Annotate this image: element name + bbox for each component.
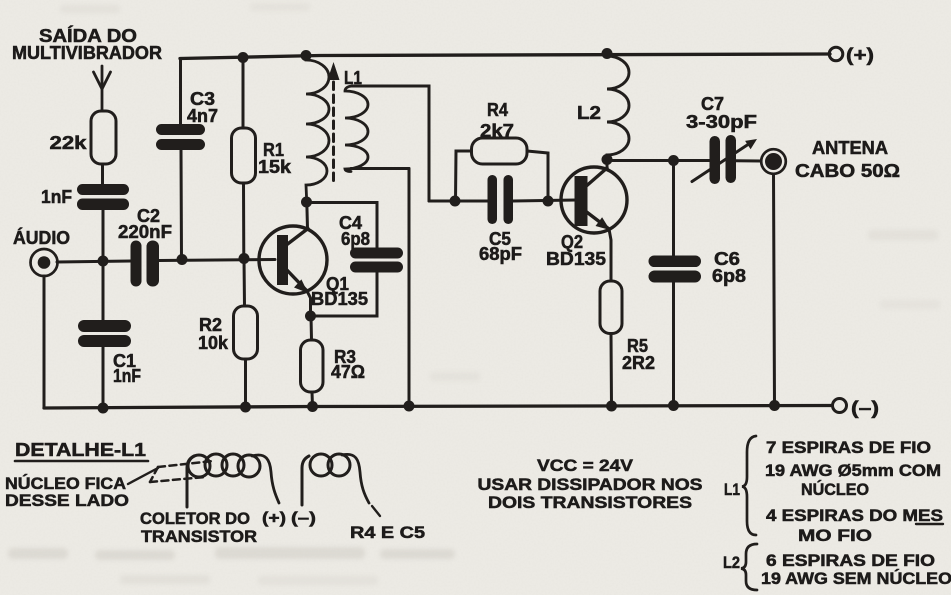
terminal (-) (833, 398, 880, 418)
wire bottom rail (44, 406, 832, 409)
capacitor C7 3-30pF trimmer (686, 94, 757, 184)
resistor 22k (50, 111, 117, 164)
detail coil L1 primary: collector lead (187, 456, 194, 507)
svg-text:COLETOR DO: COLETOR DO (140, 509, 250, 528)
wire L1 secondary right column to R4/C5 node (429, 200, 488, 203)
wire C4 top (307, 203, 378, 249)
wire C6 column upper (672, 161, 675, 257)
wire C7 to antenna jack (736, 159, 761, 162)
svg-text:1nF: 1nF (113, 366, 141, 386)
transistor Q2 BD135 (546, 167, 627, 269)
svg-text:BD135: BD135 (546, 249, 606, 269)
wire R2 to bottom rail (244, 359, 247, 407)
svg-text:19 AWG SEM NÚCLEO: 19 AWG SEM NÚCLEO (761, 569, 951, 588)
svg-text:2k7: 2k7 (480, 121, 514, 141)
capacitor C3 4n7 (156, 89, 218, 150)
wire secondary bottom to bottom rail (408, 169, 411, 407)
wire L2 node to antenna (607, 159, 710, 162)
inductor L1 secondary winding (345, 86, 368, 172)
label L1 note (724, 480, 740, 499)
detail coil L1 secondary right tail (342, 454, 369, 503)
wire audio jack to C2 (57, 261, 131, 262)
svg-text:DESSE LADO: DESSE LADO (5, 491, 129, 510)
resistor R5 2R2 (600, 281, 655, 373)
node L1 top rail (301, 50, 312, 61)
label ANTENA CABO 50ohm (795, 138, 900, 181)
svg-text:R2: R2 (199, 315, 222, 335)
detail coil L1 secondary loops (310, 454, 350, 476)
svg-text:TRANSISTOR: TRANSISTOR (141, 527, 257, 546)
svg-text:7 ESPIRAS DE FIO: 7 ESPIRAS DE FIO (766, 439, 931, 457)
wire C4 bottom (311, 273, 378, 317)
label COLETOR DO TRANSISTOR (140, 509, 257, 546)
L1 winding note text (765, 439, 943, 545)
svg-text:BD135: BD135 (311, 289, 368, 309)
label L2 note (723, 553, 740, 572)
connector ANTENA jack (761, 149, 786, 174)
underline DETALHE-L1 (15, 460, 148, 463)
node C6 bottom rail (668, 400, 679, 411)
wire emitter node to R3 (310, 316, 314, 340)
wire Q2 collector node (606, 159, 609, 168)
wire C3 column upper (179, 59, 182, 126)
wire C6 to bottom rail (672, 283, 675, 406)
wire antenna to bottom rail (774, 174, 775, 406)
capacitor C2 220nF (118, 206, 172, 287)
label VCC note (478, 456, 703, 512)
node Q1 emitter junction (305, 311, 316, 322)
capacitor C6 6p8 (649, 249, 747, 286)
wire C3 to audio line (180, 150, 184, 260)
node L1 bottom / Q1 collector (301, 197, 312, 208)
wire 1nF to audio line (102, 210, 105, 261)
resistor R2 10k (198, 306, 258, 359)
node L2 bottom / Q2 collector (602, 154, 613, 165)
resistor R3 47ohm (301, 340, 366, 392)
node C1/bottom rail (98, 403, 109, 414)
svg-text:ÁUDIO: ÁUDIO (13, 227, 70, 248)
detail coil L1 primary loops (188, 454, 260, 477)
svg-text:2R2: 2R2 (622, 353, 655, 373)
node R1/R2 column on audio line (239, 253, 250, 264)
wire R5 to bottom rail (610, 334, 614, 407)
node L2 top rail (602, 48, 613, 59)
wire 22k to 1nF (101, 164, 104, 185)
wire C2 to Q1 base (159, 260, 275, 261)
wire rail to R1 (242, 58, 245, 129)
svg-text:NÚCLEO: NÚCLEO (801, 480, 869, 499)
wire Q2 emitter to R5 (609, 229, 611, 281)
pointer tick R4 E C5 (372, 506, 380, 516)
node secondary bottom rail (404, 401, 415, 412)
capacitor C4 6p8 (339, 213, 403, 273)
node R5 bottom rail (606, 401, 617, 412)
svg-text:DETALHE-L1: DETALHE-L1 (15, 440, 146, 460)
svg-text:CABO 50Ω: CABO 50Ω (795, 161, 900, 181)
svg-text:MO FIO: MO FIO (798, 527, 872, 545)
svg-text:USAR DISSIPADOR NOS: USAR DISSIPADOR NOS (478, 475, 703, 494)
svg-text:6 ESPIRAS DE FIO: 6 ESPIRAS DE FIO (766, 552, 935, 570)
svg-text:L1: L1 (724, 480, 740, 499)
svg-text:47Ω: 47Ω (331, 362, 365, 382)
svg-text:6p8: 6p8 (712, 266, 746, 286)
wire L1 secondary top to right column (352, 86, 429, 201)
svg-text:R4: R4 (487, 100, 508, 120)
input arrow from multivibrator (94, 66, 111, 111)
wire audio line to R2 (243, 259, 247, 307)
detail coil labels (+) (-) (262, 510, 316, 527)
brace L1 (742, 436, 756, 535)
inductor L1 primary winding (306, 56, 329, 201)
svg-text:DOIS TRANSISTORES: DOIS TRANSISTORES (488, 493, 692, 512)
svg-text:15k: 15k (258, 157, 292, 177)
label DETALHE-L1 (15, 440, 146, 460)
svg-text:(+): (+) (846, 45, 874, 65)
wire audio jack down to bottom rail (43, 276, 46, 408)
L1 core dashed line with arrow (328, 62, 340, 183)
svg-text:L2: L2 (723, 553, 740, 572)
label NUCLEO FICA DESSE LADO (5, 474, 129, 510)
transistor Q1 BD135 (259, 226, 368, 309)
resistor R1 15k (232, 128, 293, 183)
svg-text:VCC = 24V: VCC = 24V (537, 456, 634, 475)
svg-text:10k: 10k (198, 333, 229, 353)
svg-text:22k: 22k (50, 133, 88, 153)
wire Q1 collector to node (305, 202, 309, 229)
L2 winding note text (761, 552, 951, 588)
wire Q1 emitter down (307, 291, 311, 316)
wire audio line to C1 (102, 261, 105, 320)
wire top rail (180, 54, 830, 59)
capacitor C1 1nF (78, 320, 141, 386)
node R2 bottom rail (240, 402, 251, 413)
svg-text:6p8: 6p8 (341, 229, 370, 249)
resistor R4 2k7 (456, 100, 549, 201)
pointer line nucleo (128, 468, 158, 484)
svg-text:(–): (–) (851, 398, 879, 418)
detail coil L1 primary right tail (252, 455, 279, 503)
svg-text:4 ESPIRAS DO MES: 4 ESPIRAS DO MES (766, 507, 943, 525)
svg-text:(–): (–) (291, 510, 316, 527)
node C3 column on audio line (177, 254, 188, 265)
connector AUDIO jack (31, 249, 58, 276)
node R3 bottom rail (307, 401, 318, 412)
svg-text:68pF: 68pF (479, 244, 522, 264)
node R1 top rail (238, 52, 249, 63)
node R4/C5 left (450, 196, 461, 207)
inductor L2 (607, 56, 629, 160)
node antenna bottom rail (769, 400, 780, 411)
node R4/C5 right (543, 196, 554, 207)
svg-text:3-30pF: 3-30pF (686, 112, 757, 132)
svg-text:L2: L2 (577, 103, 601, 123)
svg-text:MULTIVIBRADOR: MULTIVIBRADOR (12, 43, 162, 63)
node C6 column (668, 155, 679, 166)
wire R3 to bottom rail (311, 392, 315, 407)
detail coil L1 secondary: left lead (302, 456, 309, 505)
wire C1 to bottom rail (102, 347, 105, 408)
label R4 E C5 (350, 523, 425, 542)
wire R1 to audio line (242, 183, 245, 259)
svg-text:1nF: 1nF (41, 187, 72, 207)
label SAIDA DO MULTIVIBRADOR (12, 25, 162, 63)
dashed core of detail coil (150, 461, 213, 482)
capacitor C5 68pF (479, 175, 522, 264)
wire L1 secondary bottom (351, 167, 409, 170)
svg-text:C7: C7 (701, 94, 724, 114)
svg-text:ANTENA: ANTENA (812, 138, 888, 158)
capacitor 1nF (upper) (41, 184, 129, 210)
svg-text:220nF: 220nF (118, 222, 172, 242)
node audio/1nF junction (98, 256, 109, 267)
brace L2 (741, 544, 757, 590)
svg-text:19 AWG Ø5mm COM: 19 AWG Ø5mm COM (765, 462, 941, 480)
svg-text:R4 E C5: R4 E C5 (350, 523, 425, 542)
svg-text:(+): (+) (262, 510, 286, 527)
wire node to Q2 base (513, 200, 576, 201)
terminal (+) (829, 45, 874, 65)
svg-text:4n7: 4n7 (187, 106, 218, 126)
underline MES (916, 523, 943, 525)
